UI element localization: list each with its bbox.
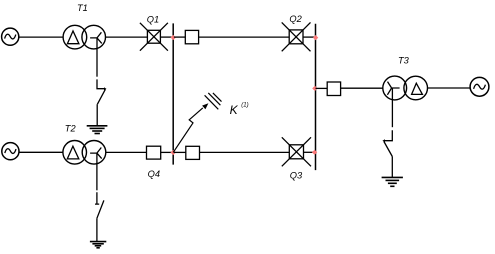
wire Q4 to busbar W1 (161, 151, 173, 153)
svg-text:T1: T1 (77, 3, 88, 13)
svg-text:Q1: Q1 (147, 15, 159, 25)
fault arrow shaft K1 (173, 108, 203, 152)
wire Q2 to busbar W2 (303, 36, 315, 38)
wire G2 to T2 (19, 151, 63, 153)
breaker Q1 (140, 23, 168, 51)
transformer T2 (63, 141, 106, 165)
wire T3 neutral (391, 88, 393, 127)
busbar W1 (172, 23, 174, 164)
ground (T2) (90, 242, 106, 248)
switch S3 (T3 neutral) (382, 130, 392, 156)
node A (Q1-W1 junction, red diamond) (171, 35, 176, 40)
wire to ground (T3) (391, 157, 393, 178)
disconnector square C (W1 row2) (174, 146, 200, 159)
svg-text:(1): (1) (241, 103, 248, 109)
fault arrowhead (202, 103, 208, 109)
wire T2 neutral (96, 153, 98, 190)
wire G1 to T1 (19, 36, 63, 38)
disconnector square A (W1 top feeder) (174, 30, 199, 43)
generator G2 (2, 143, 19, 160)
breaker Q2 (282, 22, 311, 51)
svg-text:K: K (230, 103, 239, 117)
transformer T1 (63, 25, 105, 49)
wire square C to Q3 (200, 151, 290, 153)
switch S2 (T2 neutral) (95, 192, 104, 218)
wire Q1 to busbar W1 (160, 36, 172, 38)
wire Q3 to busbar W2 (304, 151, 315, 153)
disconnector Q4 (147, 146, 161, 159)
busbar W2 (315, 24, 317, 170)
ground (T1) (87, 126, 108, 134)
node E (Q3-W2 junction, red diamond) (312, 150, 317, 155)
svg-text:Q4: Q4 (148, 169, 160, 179)
wire T3 to G3 (428, 87, 471, 89)
breaker Q3 (282, 137, 311, 166)
node B (Q2-W2 junction, red diamond) (313, 35, 318, 40)
generator G1 (2, 28, 19, 45)
wire square A to Q2 (199, 36, 290, 38)
ground (T3) (382, 177, 403, 186)
transformer T3 (383, 76, 428, 100)
wire to ground (T2) (96, 218, 98, 241)
switch S1 (T1 neutral) (97, 79, 107, 104)
disconnector square B (T3 branch) (316, 82, 341, 96)
wire T1 to Q1 (106, 36, 148, 38)
wire square B to T3 (341, 87, 383, 89)
wire T1 neutral (96, 38, 98, 77)
node C (W2-T3 branch junction, red diamond) (312, 86, 317, 91)
svg-text:Q2: Q2 (289, 14, 302, 24)
svg-text:T3: T3 (398, 56, 410, 66)
node D (fault junction, red diamond) (171, 150, 176, 155)
svg-text:Q3: Q3 (290, 170, 303, 180)
wire to ground (T1) (96, 104, 98, 125)
wire T2 to Q4 (106, 151, 147, 153)
fault ticks (205, 93, 222, 109)
svg-text:T2: T2 (65, 124, 77, 134)
generator G3 (system, right) (470, 77, 489, 96)
